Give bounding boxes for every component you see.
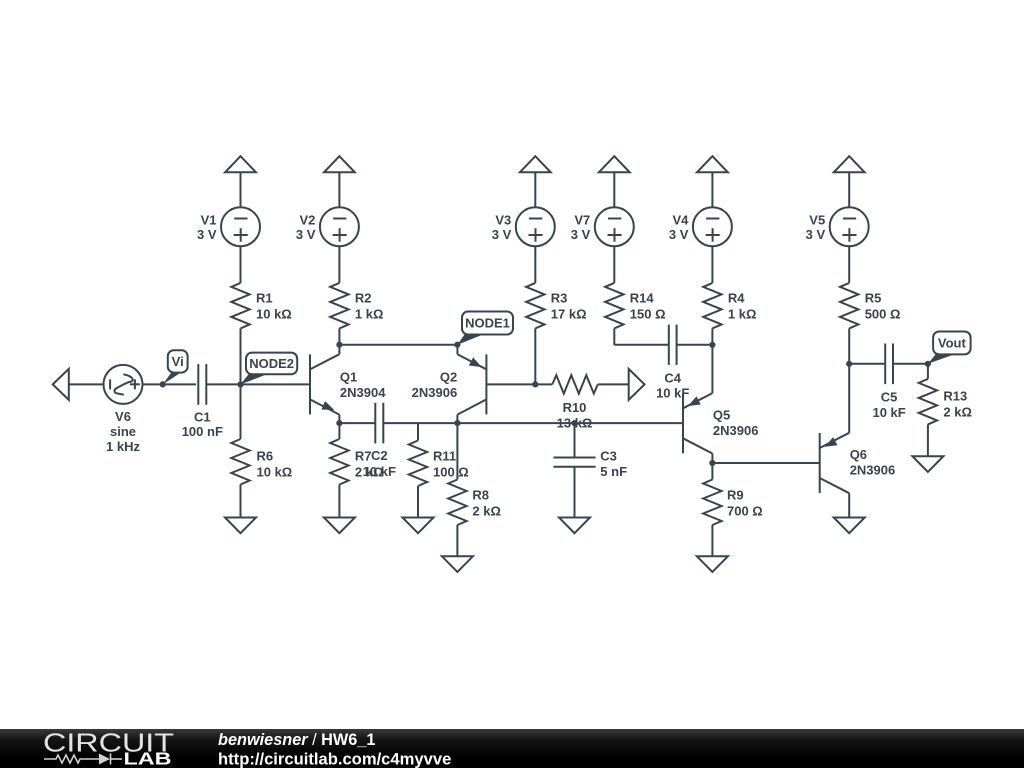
node (Q1 collector / R2) — [336, 342, 342, 348]
resistor R13 2 kΩ — [919, 379, 972, 425]
node (Q2 collector) — [454, 420, 460, 426]
power arrow (V4 rail) — [697, 156, 728, 172]
transistor Q6 2N3906 — [820, 364, 896, 518]
transistor Q1 2N3904 — [310, 345, 386, 423]
resistor R5 500 Ω — [840, 283, 900, 329]
resistor R9 700 Ω — [703, 480, 763, 526]
transistor Q2 2N3906 — [412, 345, 536, 423]
wire — [69, 383, 104, 385]
wire — [240, 172, 242, 207]
node (Q1 emitter) — [336, 420, 342, 426]
capacitor C4 10 kF — [656, 325, 689, 401]
voltage source V1 3 V — [197, 207, 260, 246]
ground — [442, 556, 473, 572]
wire — [338, 328, 340, 344]
wire — [613, 328, 615, 344]
node (R5 / C5 / Q6 emitter) — [846, 361, 852, 367]
wire — [240, 328, 242, 384]
power arrow (V1 rail) — [225, 156, 256, 172]
wire — [893, 363, 928, 365]
node Vi dot — [160, 381, 166, 387]
ground — [697, 556, 728, 572]
node (C4 / R4 / Q5 emitter) — [709, 342, 715, 348]
power arrow (V7 rail) — [599, 156, 630, 172]
voltage source V2 3 V — [296, 207, 359, 246]
wire — [456, 423, 458, 556]
flag label NODE2 — [241, 353, 298, 385]
voltage source V3 3 V — [492, 207, 555, 246]
svg-text:http://circuitlab.com/c4myvve: http://circuitlab.com/c4myvve — [218, 750, 451, 768]
wire — [848, 172, 850, 207]
wire — [240, 246, 242, 283]
power arrow (V3 rail) — [520, 156, 551, 172]
wire — [534, 246, 536, 283]
wire — [613, 172, 615, 207]
wire — [614, 344, 669, 346]
wire — [534, 172, 536, 207]
voltage source V5 3 V — [806, 207, 869, 246]
resistor R7 2 kΩ — [330, 439, 383, 485]
resistor R11 100 Ω — [409, 441, 469, 487]
ground — [403, 518, 434, 534]
resistor R4 1 kΩ — [703, 283, 756, 329]
resistor R6 10 kΩ — [231, 439, 292, 485]
wire — [383, 422, 457, 424]
wire — [927, 364, 929, 456]
wire — [849, 363, 885, 365]
wire — [339, 344, 457, 346]
wire — [613, 246, 615, 283]
resistor R8 2 kΩ — [448, 480, 501, 526]
wire — [711, 463, 713, 556]
wire — [338, 423, 340, 517]
wire — [417, 423, 419, 517]
wire — [848, 246, 850, 283]
port / ground (rotated, input left) — [53, 369, 69, 400]
wire — [206, 383, 310, 385]
voltage source V7 3 V — [571, 207, 634, 246]
resistor R2 1 kΩ — [330, 283, 383, 329]
node NODE1 dot — [454, 342, 460, 348]
ground — [912, 456, 943, 472]
wire — [240, 384, 242, 517]
voltage source V4 3 V — [669, 207, 732, 246]
wire — [339, 422, 375, 424]
capacitor C1 — [182, 364, 223, 439]
wire — [338, 172, 340, 207]
resistor R3 17 kΩ — [526, 283, 586, 329]
node Vout dot — [925, 361, 931, 367]
wire — [711, 246, 713, 283]
ground — [324, 518, 355, 534]
node NODE2 dot — [237, 381, 243, 387]
wire — [711, 328, 713, 344]
flag label Vi — [163, 350, 188, 384]
resistor R1 10 kΩ — [231, 283, 291, 329]
wire — [848, 328, 850, 363]
power arrow (V5 rail) — [834, 156, 865, 172]
capacitor C5 10 kF — [872, 344, 905, 420]
capacitor C3 5 nF — [553, 423, 627, 517]
ground — [559, 518, 590, 534]
svg-text:LAB: LAB — [124, 749, 172, 768]
transistor Q5 2N3906 — [683, 345, 758, 463]
CircuitLab logo text CIRCUIT — [43, 730, 174, 758]
flag label Vout — [928, 332, 971, 364]
wire — [535, 383, 628, 385]
node (Q2 base / R3 / R10) — [532, 381, 538, 387]
wire — [338, 246, 340, 283]
wire — [711, 172, 713, 207]
wire — [457, 422, 683, 424]
wire — [143, 383, 197, 385]
url line — [218, 750, 451, 768]
ground — [225, 518, 256, 534]
flag label NODE1 — [457, 312, 513, 345]
ground — [834, 518, 865, 534]
wire — [534, 328, 536, 384]
wire — [712, 462, 819, 464]
capacitor C2 — [363, 403, 396, 479]
voltage source V6 (sine 1 kHz) — [104, 365, 143, 454]
footer bar — [0, 729, 1024, 768]
resistor R10 13 kΩ — [552, 375, 598, 430]
logo doodle: wire-resistor-diode — [44, 754, 122, 765]
wire — [677, 344, 713, 346]
svg-text:benwiesner / HW6_1: benwiesner / HW6_1 — [218, 731, 375, 749]
port / ground (rotated, right) — [629, 369, 645, 400]
node (C3 tap) — [571, 420, 577, 426]
node (Q5 collector / R9 / Q6 base) — [709, 460, 715, 466]
logo text LAB — [124, 749, 172, 768]
resistor R14 150 Ω — [605, 283, 665, 329]
power arrow (V2 rail) — [324, 156, 355, 172]
credit line: benwiesner / HW6_1 — [218, 731, 375, 749]
